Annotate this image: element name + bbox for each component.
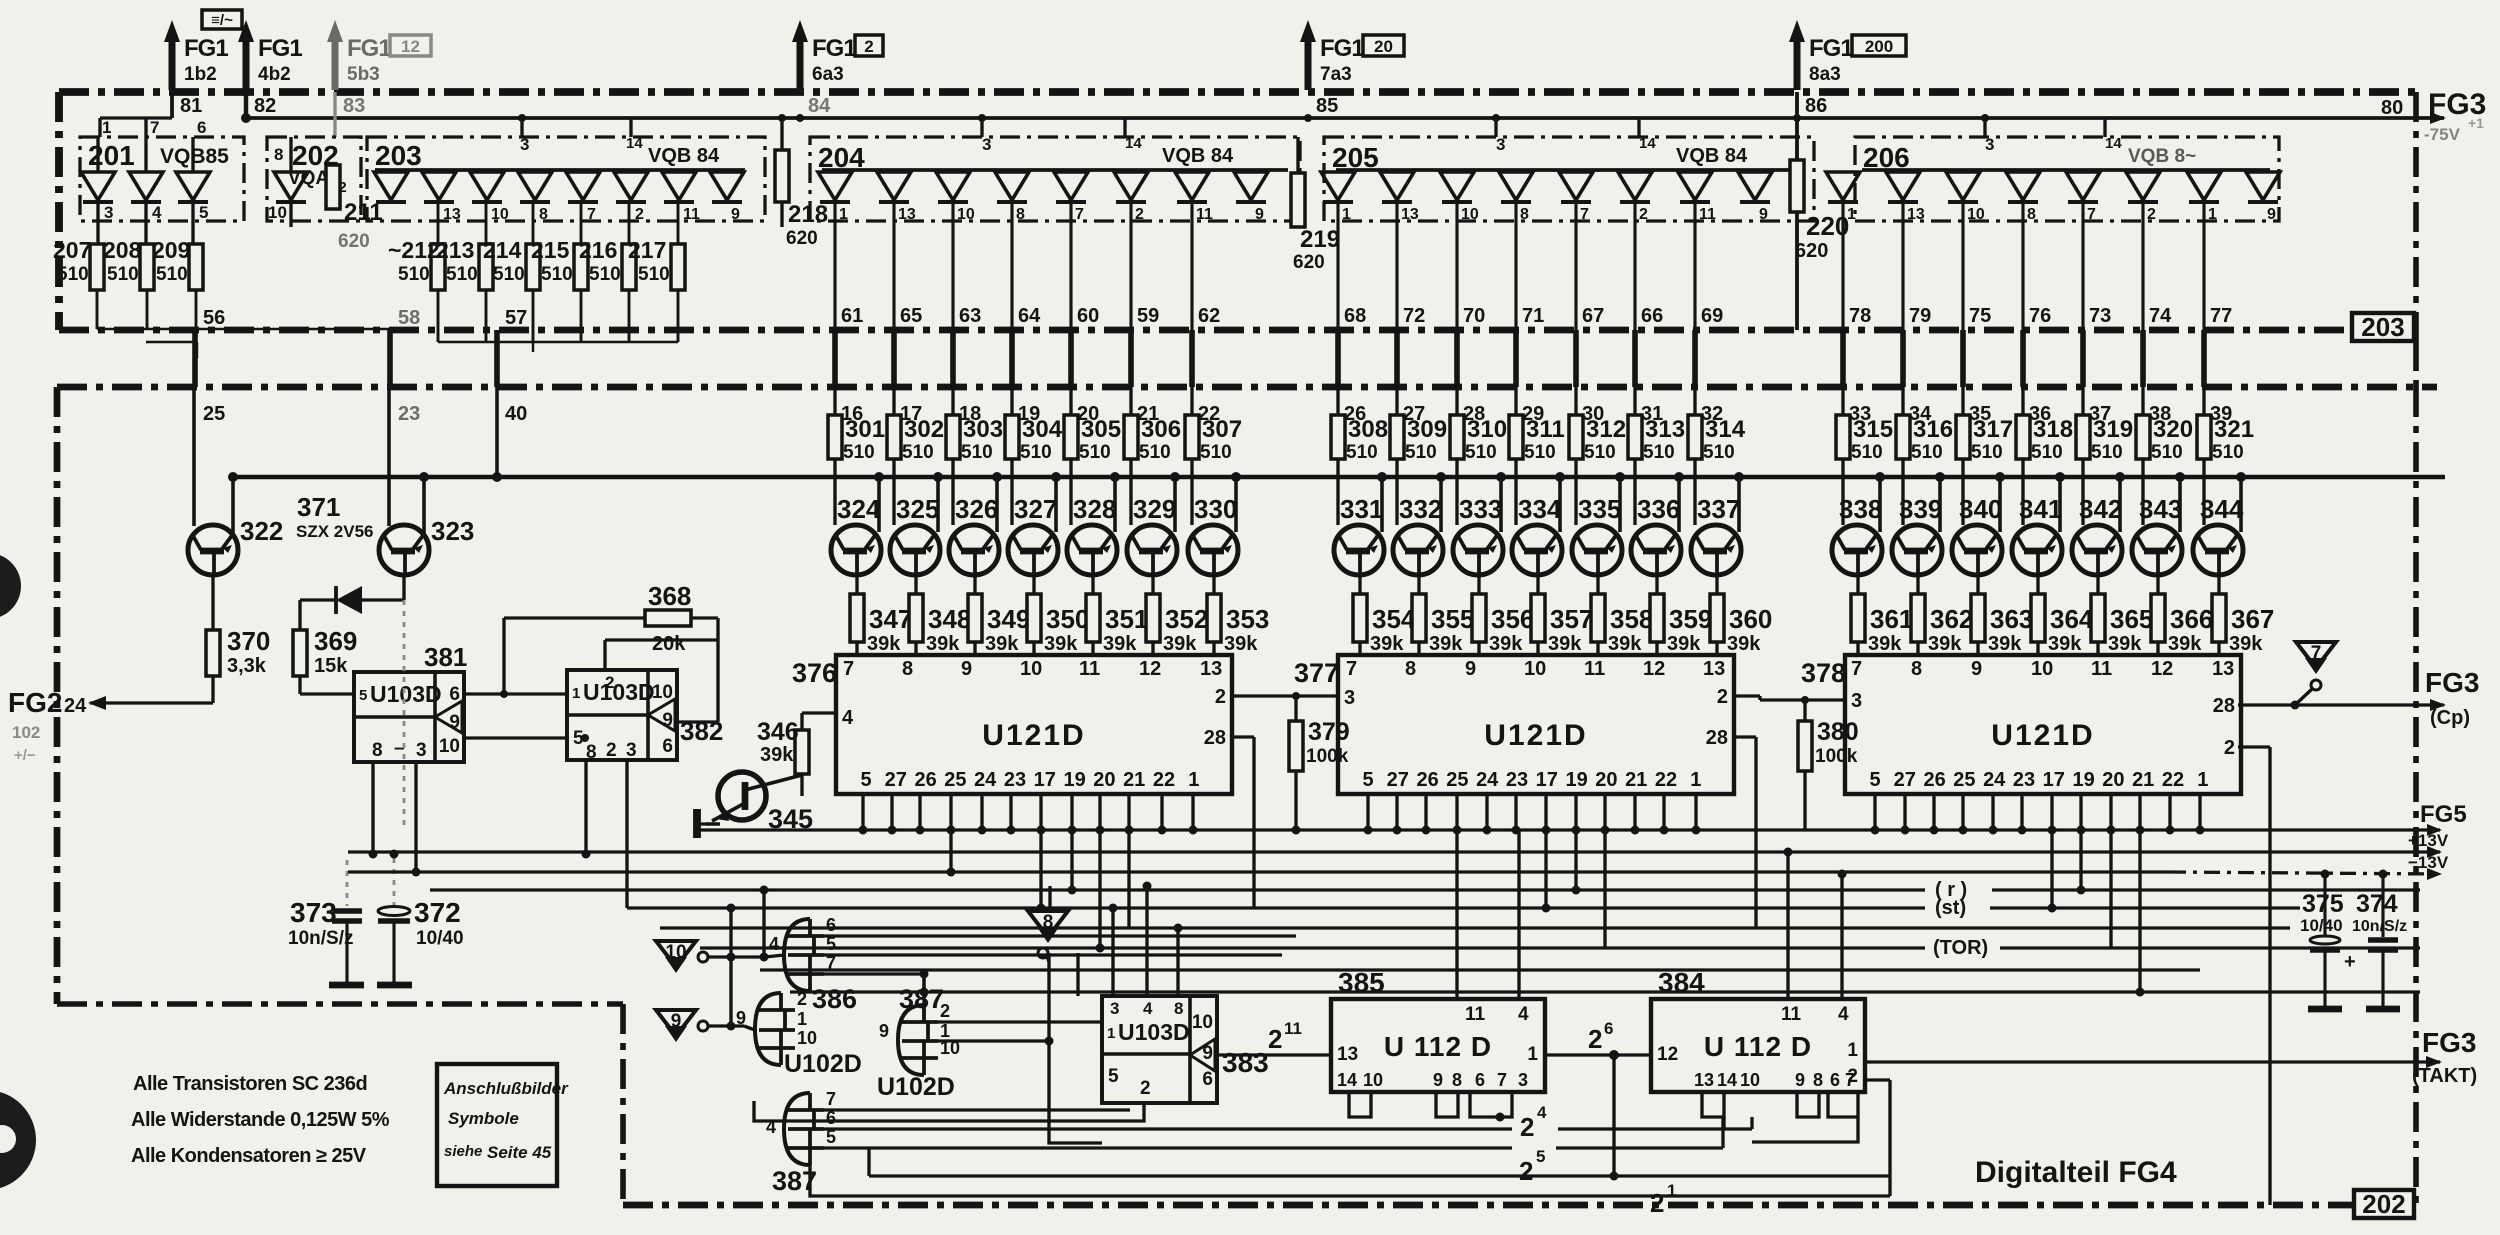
wire 378 pin28 to FG3 Cp <box>2238 703 2444 706</box>
punch hole bottom-left <box>0 1090 36 1190</box>
display 206 diode 1 <box>1826 172 1860 200</box>
svg-text:3,3k: 3,3k <box>227 655 267 677</box>
svg-text:10: 10 <box>1020 658 1042 680</box>
svg-text:12: 12 <box>1657 1044 1678 1065</box>
svg-text:20: 20 <box>1093 769 1115 791</box>
svg-text:39k: 39k <box>1548 633 1582 655</box>
display 206 diode 7 <box>2187 172 2221 200</box>
bus line -13V y=872 <box>348 870 2170 873</box>
ground bar at 345 <box>693 809 701 838</box>
svg-text:620: 620 <box>1293 252 1325 273</box>
svg-text:75: 75 <box>1969 305 1991 327</box>
svg-text:5: 5 <box>359 687 367 704</box>
display module 204 (VQB84) box with diodes <box>810 137 1300 221</box>
svg-text:58: 58 <box>398 307 420 329</box>
wire column node 59 / 21 <box>1129 202 1132 330</box>
svg-text:FG1: FG1 <box>347 35 391 62</box>
display 206 diode 3 <box>1946 172 1980 200</box>
wire 376 pin28 down <box>1232 735 1254 738</box>
resistor 361 39k <box>1851 594 1865 642</box>
power symbol =/~ box <box>202 10 242 29</box>
svg-text:620: 620 <box>338 231 370 252</box>
svg-text:10/40: 10/40 <box>416 928 464 949</box>
svg-text:3: 3 <box>1496 135 1505 154</box>
svg-text:U103D: U103D <box>1118 1019 1190 1045</box>
svg-text:39k: 39k <box>1727 633 1761 655</box>
svg-text:3: 3 <box>520 135 529 154</box>
svg-text:2: 2 <box>605 673 614 692</box>
svg-text:4b2: 4b2 <box>258 64 291 85</box>
svg-text:25: 25 <box>1953 769 1975 791</box>
wires gate387-upper outputs right <box>938 1020 1102 1023</box>
svg-text:510: 510 <box>107 264 139 285</box>
svg-text:64: 64 <box>1018 305 1041 327</box>
transistor 323 <box>387 387 391 526</box>
svg-text:71: 71 <box>1522 305 1544 327</box>
display 206 diode 2 <box>1886 172 1920 200</box>
svg-text:348: 348 <box>928 604 971 634</box>
svg-text:11: 11 <box>1284 1019 1302 1038</box>
transistor 335 <box>1572 525 1622 575</box>
svg-text:−13V: −13V <box>2408 853 2449 872</box>
svg-text:39k: 39k <box>2168 633 2202 655</box>
resistor 308 510 <box>1336 387 1339 415</box>
svg-text:78: 78 <box>1849 305 1871 327</box>
display 203 diode 8 <box>710 172 744 200</box>
resistor 369 15k <box>293 630 307 676</box>
counter 384 (U112D) <box>1651 999 1865 1092</box>
svg-text:2: 2 <box>2224 737 2235 759</box>
svg-text:20: 20 <box>1374 37 1393 56</box>
svg-text:346: 346 <box>757 718 799 746</box>
svg-text:40: 40 <box>505 403 527 425</box>
svg-text:12: 12 <box>1139 658 1161 680</box>
svg-text:510: 510 <box>493 264 525 285</box>
svg-text:510: 510 <box>843 442 875 463</box>
svg-text:24: 24 <box>974 769 997 791</box>
svg-text:Digitalteil FG4: Digitalteil FG4 <box>1975 1156 2177 1189</box>
emitter rail y=477 <box>233 475 2445 479</box>
svg-text:U121D: U121D <box>1991 719 2094 752</box>
svg-text:375: 375 <box>2302 890 2344 918</box>
svg-text:U 112 D: U 112 D <box>1384 1031 1492 1062</box>
display 205 diode pin 9 <box>1738 172 1772 200</box>
svg-text:14: 14 <box>1125 135 1142 152</box>
svg-text:369: 369 <box>314 626 357 656</box>
counter 385 (U112D) <box>1331 999 1545 1092</box>
svg-text:213: 213 <box>436 237 474 263</box>
svg-text:22: 22 <box>2162 769 2184 791</box>
svg-text:4: 4 <box>842 707 854 729</box>
svg-text:510: 510 <box>1079 442 1111 463</box>
svg-text:4: 4 <box>1143 999 1153 1018</box>
vertical wires to bottom ICs <box>1786 852 1789 999</box>
svg-text:7: 7 <box>1845 1070 1855 1090</box>
wire column node 69 / 32 <box>1693 202 1696 330</box>
svg-text:1: 1 <box>2197 769 2208 791</box>
svg-text:6a3: 6a3 <box>812 64 844 85</box>
svg-text:3: 3 <box>1110 999 1119 1018</box>
svg-text:+1: +1 <box>2468 115 2484 131</box>
transistor 341 <box>2012 525 2062 575</box>
svg-text:67: 67 <box>1582 305 1604 327</box>
resistor 350 39k <box>1027 594 1041 642</box>
svg-text:510: 510 <box>1405 442 1437 463</box>
svg-text:8: 8 <box>1520 206 1529 223</box>
svg-text:7: 7 <box>1346 658 1357 680</box>
svg-text:56: 56 <box>203 307 225 329</box>
svg-text:11: 11 <box>683 206 700 223</box>
resistor 364 39k <box>2031 594 2045 642</box>
display 204 diode pin 9 <box>1234 172 1268 200</box>
bus wire node 82 to FG3 (node 80) <box>244 92 248 118</box>
display 204 diode pin 13 <box>877 172 911 200</box>
svg-text:510: 510 <box>1584 442 1616 463</box>
resistor 208 510 <box>140 244 154 290</box>
display module 206 (VQB84) box with diodes <box>1855 137 2279 221</box>
svg-text:26: 26 <box>1416 769 1438 791</box>
svg-text:338: 338 <box>1839 494 1882 524</box>
wire display203 pin3/14 up to bus <box>520 118 523 137</box>
svg-text:Anschlußbilder: Anschlußbilder <box>443 1079 569 1098</box>
svg-text:39k: 39k <box>2048 633 2082 655</box>
svg-text:323: 323 <box>431 516 474 546</box>
wire column node 67 / 30 <box>1574 202 1577 330</box>
svg-text:3: 3 <box>416 740 427 761</box>
svg-text:354: 354 <box>1372 604 1416 634</box>
svg-text:10n/S/z: 10n/S/z <box>2352 918 2407 935</box>
svg-text:510: 510 <box>2151 442 2183 463</box>
wire column node 78 / 33 <box>1841 202 1844 330</box>
border label box 203 <box>2352 313 2414 341</box>
svg-text:10: 10 <box>1363 1070 1383 1090</box>
svg-text:376: 376 <box>792 658 837 688</box>
svg-text:FG1: FG1 <box>1320 35 1364 62</box>
svg-text:314: 314 <box>1705 416 1746 443</box>
svg-text:340: 340 <box>1959 494 2002 524</box>
FG1 terminal 5b3, node 83 <box>332 40 339 90</box>
svg-text:1: 1 <box>2208 206 2217 223</box>
svg-text:11: 11 <box>2091 658 2112 680</box>
display 205 diode pin 1 <box>1321 172 1355 200</box>
svg-text:1: 1 <box>1527 1044 1538 1065</box>
selected deep pin wires group2 <box>1544 830 1547 908</box>
svg-text:353: 353 <box>1226 604 1269 634</box>
border label box 202 <box>2354 1190 2414 1218</box>
svg-text:330: 330 <box>1194 494 1237 524</box>
svg-text:1: 1 <box>102 118 111 137</box>
svg-text:4: 4 <box>1838 1004 1849 1025</box>
display 206 diode 6 <box>2126 172 2160 200</box>
svg-text:1: 1 <box>839 206 848 223</box>
bus line y=970 <box>760 968 2200 971</box>
svg-text:39k: 39k <box>1044 633 1078 655</box>
resistor 351 39k <box>1086 594 1100 642</box>
transistor 330 <box>1188 525 1238 575</box>
svg-text:21: 21 <box>1625 769 1647 791</box>
wire FG1-83 down <box>333 92 336 137</box>
display module 202 (VQA) box <box>267 137 361 221</box>
svg-text:39k: 39k <box>2229 633 2263 655</box>
svg-text:10: 10 <box>1192 1012 1213 1033</box>
display 203 diode 2 <box>422 172 456 200</box>
svg-text:8: 8 <box>1016 206 1025 223</box>
resistor 367 39k <box>2212 594 2226 642</box>
FG1 terminal 6a3, node 84 <box>797 40 804 90</box>
svg-text:39k: 39k <box>985 633 1019 655</box>
svg-text:7: 7 <box>1851 658 1862 680</box>
svg-text:9: 9 <box>1465 658 1476 680</box>
svg-text:337: 337 <box>1697 494 1740 524</box>
wires gates to left rails <box>729 908 732 957</box>
svg-text:17: 17 <box>1034 769 1056 791</box>
svg-text:373: 373 <box>290 897 337 928</box>
bus line (TOR) y=948 <box>700 946 1925 949</box>
svg-text:510: 510 <box>1851 442 1883 463</box>
svg-text:304: 304 <box>1022 416 1063 443</box>
svg-text:313: 313 <box>1645 416 1685 443</box>
display 204 diode pin 2 <box>1114 172 1148 200</box>
display 203 diode 7 <box>662 172 696 200</box>
svg-text:329: 329 <box>1133 494 1176 524</box>
svg-text:9: 9 <box>1795 1070 1805 1090</box>
svg-text:1: 1 <box>797 1009 807 1029</box>
svg-text:1: 1 <box>1107 1025 1115 1042</box>
svg-text:11: 11 <box>1079 658 1100 680</box>
FG1 terminal 4b2, node 82 <box>243 40 250 90</box>
svg-text:20: 20 <box>1595 769 1617 791</box>
svg-text:327: 327 <box>1014 494 1057 524</box>
svg-text:(TAKT): (TAKT) <box>2412 1065 2477 1087</box>
svg-text:310: 310 <box>1467 416 1507 443</box>
svg-text:215: 215 <box>531 237 570 263</box>
resistor 379 100k <box>1294 696 1297 721</box>
svg-text:8: 8 <box>1452 1070 1462 1090</box>
svg-text:386: 386 <box>812 984 857 1014</box>
selected deep pin wires group3 <box>2050 830 2053 908</box>
resistor 317 510 <box>1961 387 1964 415</box>
svg-text:378: 378 <box>1801 658 1846 688</box>
svg-text:364: 364 <box>2050 604 2094 634</box>
resistor 365 39k <box>2091 594 2105 642</box>
punch hole top-left <box>0 553 21 619</box>
svg-text:7: 7 <box>150 118 159 137</box>
wire FG1-81 down to display 201 <box>170 92 174 118</box>
resistor 303 510 <box>951 387 954 415</box>
svg-text:510: 510 <box>1643 442 1675 463</box>
svg-text:301: 301 <box>845 416 885 443</box>
svg-text:203: 203 <box>375 140 422 171</box>
svg-text:Symbole: Symbole <box>448 1109 519 1128</box>
resistor 213 510 <box>485 202 488 244</box>
resistor 216 510 <box>628 202 631 244</box>
svg-text:9: 9 <box>449 712 460 733</box>
svg-text:311: 311 <box>1526 416 1565 443</box>
svg-text:FG1: FG1 <box>258 35 302 62</box>
svg-text:74: 74 <box>2149 305 2172 327</box>
svg-text:8: 8 <box>274 145 283 164</box>
svg-text:2: 2 <box>2147 206 2156 223</box>
svg-text:14: 14 <box>626 135 643 152</box>
svg-text:14: 14 <box>1337 1070 1357 1090</box>
display 205 diode pin 7 <box>1559 172 1593 200</box>
wire 384 pin1 to FG3 TAKT <box>1865 1060 2440 1063</box>
wire column node 60 / 20 <box>1069 202 1072 330</box>
package stubs 384 <box>1702 1092 1724 1117</box>
wire column node 75 / 35 <box>1961 202 1964 330</box>
svg-text:13: 13 <box>1401 206 1419 223</box>
svg-text:39k: 39k <box>1224 633 1258 655</box>
display module 205 (VQB84) box with diodes <box>1324 137 1814 221</box>
display 203 diode 5 <box>566 172 600 200</box>
wire long bottom 2 <box>810 1165 1890 1196</box>
svg-text:361: 361 <box>1870 604 1913 634</box>
svg-text:23: 23 <box>2013 769 2035 791</box>
svg-text:510: 510 <box>1465 442 1497 463</box>
resistor 319 510 <box>2081 387 2084 415</box>
svg-text:356: 356 <box>1491 604 1534 634</box>
svg-text:360: 360 <box>1729 604 1772 634</box>
svg-text:1: 1 <box>1188 769 1199 791</box>
svg-text:28: 28 <box>1706 727 1728 749</box>
wire 377 pin2 to 378 pin3 <box>1734 694 1760 697</box>
svg-text:343: 343 <box>2139 494 2182 524</box>
resistor 349 39k <box>968 594 982 642</box>
svg-text:6: 6 <box>662 736 673 757</box>
resistor 355 39k <box>1412 594 1426 642</box>
transistor 342 <box>2072 525 2122 575</box>
svg-text:2: 2 <box>606 740 617 761</box>
svg-text:306: 306 <box>1141 416 1181 443</box>
display 206 diode 4 <box>2006 172 2040 200</box>
FG2 terminal node 24 <box>90 701 213 704</box>
wires into 383 from above <box>1111 908 1114 996</box>
transistor 337 <box>1691 525 1741 575</box>
svg-text:Alle Transistoren SC 236d: Alle Transistoren SC 236d <box>133 1073 367 1095</box>
transistor 345 <box>718 772 766 820</box>
svg-text:9: 9 <box>731 206 740 223</box>
svg-text:372: 372 <box>414 897 461 928</box>
svg-text:23: 23 <box>1506 769 1528 791</box>
svg-text:9: 9 <box>662 710 673 731</box>
svg-text:24: 24 <box>64 695 87 717</box>
display 205 diode pin 10 <box>1440 172 1474 200</box>
svg-text:85: 85 <box>1316 95 1338 117</box>
resistor 311 510 <box>1514 387 1517 415</box>
svg-text:39k: 39k <box>1103 633 1137 655</box>
svg-text:2: 2 <box>635 206 644 223</box>
transistor 332 <box>1393 525 1443 575</box>
display 203 diode 3 <box>470 172 504 200</box>
svg-text:218: 218 <box>788 201 828 228</box>
svg-text:341: 341 <box>2019 494 2062 524</box>
svg-text:325: 325 <box>896 494 939 524</box>
svg-text:FG5: FG5 <box>2420 801 2467 828</box>
svg-text:9: 9 <box>2267 206 2276 223</box>
bus line FG5 y=830 <box>700 828 2440 831</box>
wire column node 74 / 38 <box>2141 202 2144 330</box>
svg-text:25: 25 <box>203 403 225 425</box>
counter 376 (U121D) <box>836 655 1232 794</box>
svg-text:7: 7 <box>2087 206 2096 223</box>
svg-text:207: 207 <box>53 237 91 263</box>
svg-text:8: 8 <box>1911 658 1922 680</box>
svg-text:4: 4 <box>1537 1103 1547 1122</box>
svg-text:510: 510 <box>1911 442 1943 463</box>
svg-text:8a3: 8a3 <box>1809 64 1841 85</box>
svg-text:39k: 39k <box>1489 633 1523 655</box>
svg-text:10: 10 <box>957 206 975 223</box>
svg-text:10/40: 10/40 <box>2300 916 2343 935</box>
resistor 212 510 <box>437 202 440 244</box>
svg-text:381: 381 <box>424 642 467 672</box>
svg-text:14: 14 <box>2105 135 2122 152</box>
wire column node 63 / 18 <box>951 202 954 330</box>
wire column node 72 / 27 <box>1395 202 1398 330</box>
svg-text:39k: 39k <box>1988 633 2022 655</box>
transistor 331 <box>1334 525 1384 575</box>
transistor 326 <box>949 525 999 575</box>
svg-text:2: 2 <box>1519 1156 1533 1186</box>
resistor 363 39k <box>1971 594 1985 642</box>
svg-text:320: 320 <box>2153 416 2193 443</box>
bus line (st) y=908 <box>627 906 1925 909</box>
resistor 366 39k <box>2151 594 2165 642</box>
resistor 304 510 <box>1010 387 1013 415</box>
svg-text:10: 10 <box>1967 206 1985 223</box>
svg-text:7: 7 <box>1497 1070 1507 1090</box>
svg-text:7: 7 <box>1075 206 1084 223</box>
svg-text:(st): (st) <box>1935 897 1966 919</box>
svg-text:312: 312 <box>1586 416 1626 443</box>
svg-text:66: 66 <box>1641 305 1663 327</box>
svg-text:6: 6 <box>1202 1069 1213 1090</box>
svg-text:Alle Widerstande 0,125W 5%: Alle Widerstande 0,125W 5% <box>131 1109 390 1131</box>
svg-text:2: 2 <box>1135 206 1144 223</box>
svg-text:368: 368 <box>648 581 691 611</box>
svg-text:6: 6 <box>1475 1070 1485 1090</box>
svg-text:7: 7 <box>1580 206 1589 223</box>
gate 387 lower <box>784 1093 810 1165</box>
svg-text:65: 65 <box>900 305 922 327</box>
svg-text:U102D: U102D <box>877 1073 955 1101</box>
svg-text:510: 510 <box>961 442 993 463</box>
svg-text:307: 307 <box>1202 416 1242 443</box>
top band border (dash-dot frame 203) <box>59 88 2416 96</box>
svg-text:328: 328 <box>1073 494 1116 524</box>
svg-text:FG3: FG3 <box>2422 1027 2476 1058</box>
display 203 common anode line <box>375 168 745 172</box>
gate 387 upper (U102D) <box>898 1005 924 1075</box>
svg-text:317: 317 <box>1973 416 2013 443</box>
input triangle 9 <box>656 1010 696 1036</box>
transistor 329 <box>1127 525 1177 575</box>
svg-text:9: 9 <box>961 658 972 680</box>
svg-text:61: 61 <box>841 305 863 327</box>
svg-text:510: 510 <box>1200 442 1232 463</box>
display 204 diode pin 1 <box>818 172 852 200</box>
svg-text:VQB 84: VQB 84 <box>1676 145 1748 167</box>
resistor 370 3,3k <box>211 575 214 630</box>
svg-text:81: 81 <box>180 95 202 117</box>
svg-text:2: 2 <box>1639 206 1648 223</box>
wire 381 pin10 to 382 pin5 <box>464 736 567 739</box>
node 58 <box>387 330 393 387</box>
svg-text:5: 5 <box>199 203 208 222</box>
svg-text:U103D: U103D <box>370 681 442 707</box>
switch + triangle 7 at 378 pin28 <box>2296 642 2336 668</box>
svg-text:11: 11 <box>1196 206 1213 223</box>
